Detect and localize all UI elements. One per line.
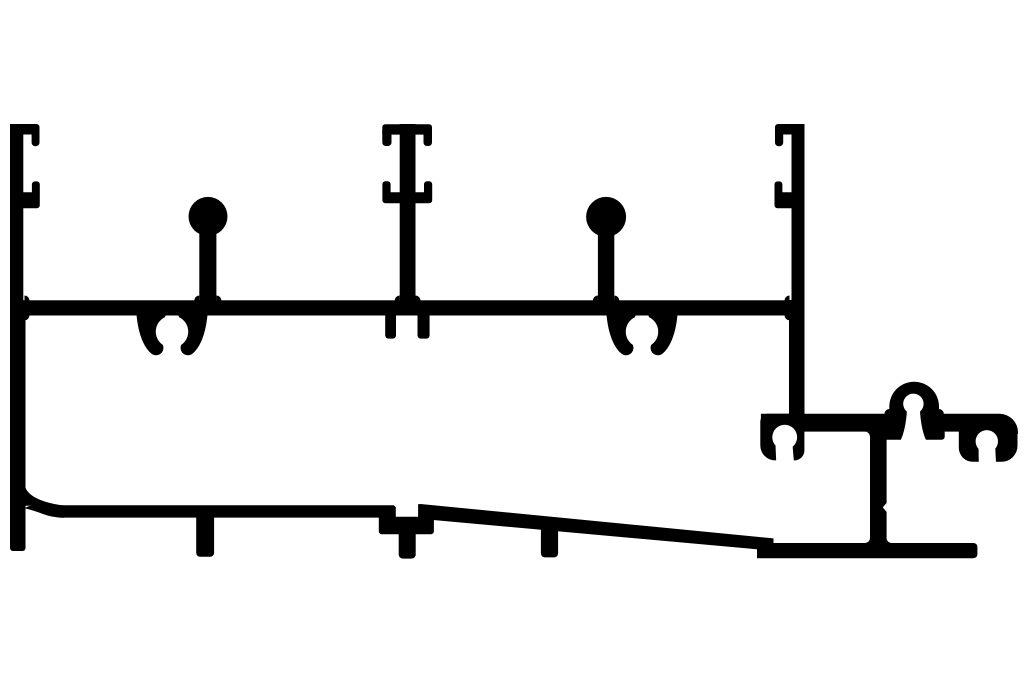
tab 3 (541, 524, 558, 557)
gasket clip 2 right jaw (648, 315, 678, 356)
junction block under notch (379, 517, 434, 534)
fillet wall-bar bottom (25, 315, 30, 320)
right C-hook body (959, 429, 1018, 462)
knob 2 stem (598, 228, 614, 303)
right top cap (775, 124, 805, 135)
right section arm (761, 414, 1018, 434)
middle post stem (400, 124, 416, 304)
middle hook right finger (424, 181, 432, 192)
fillet central-bar arm left (865, 432, 870, 437)
left cap finger (32, 130, 40, 146)
right cap finger (775, 130, 783, 146)
bottom bar left fillet (25, 485, 63, 506)
left wall lower (10, 300, 26, 551)
omega inner bore (903, 394, 923, 414)
left C-hook inner bore (772, 425, 797, 450)
omega ring (889, 382, 939, 415)
right C-hook mouth slot (979, 447, 997, 463)
left C-hook mouth slot (776, 445, 794, 462)
omega keyhole slot (901, 404, 927, 440)
sloped bar (418, 504, 773, 550)
middle cap (382, 124, 432, 134)
fillet mid-stem left (395, 296, 400, 301)
right hook block (775, 192, 792, 208)
left hook block (23, 192, 40, 208)
gasket clip 1 left jaw (137, 315, 167, 356)
fillet wall-bar top (25, 296, 30, 301)
main horizontal bar (10, 300, 805, 315)
fillet central-bar bottom left (865, 538, 870, 543)
middle stub left below bar (385, 315, 396, 339)
fillet mid-stem right (416, 296, 421, 301)
fillet right-post top (785, 296, 790, 301)
right post wall lower (789, 300, 805, 424)
right C-hook inner bore (976, 430, 998, 452)
screw notch on central bar (883, 503, 887, 512)
fillet stem2 left (593, 296, 598, 301)
middle cap right finger (424, 130, 433, 146)
left wall upper (10, 124, 23, 310)
knob 1 circle (189, 197, 228, 236)
tab 1 (196, 514, 214, 557)
middle cap left finger (382, 130, 391, 146)
right hook finger (775, 181, 783, 192)
fillet stem1 right (216, 296, 221, 301)
fillet central-bar arm right (887, 432, 892, 437)
bottom flat bar (60, 505, 396, 517)
bottom right bar (757, 543, 977, 558)
right post wall upper (792, 124, 805, 310)
tab 2 (399, 530, 416, 559)
omega flange block (883, 414, 945, 440)
omega right side fillet (939, 409, 944, 414)
central vertical bar (right section) (870, 420, 887, 550)
gasket clip 1 right jaw (178, 315, 208, 356)
gasket clip 2 left jaw (607, 315, 637, 356)
left top cap (10, 124, 40, 135)
fillet right-post bottom (785, 315, 790, 320)
bottom bar underside web (25, 505, 65, 517)
knob 1 stem (199, 228, 216, 303)
fillet central-bar bottom right (887, 538, 892, 543)
left hook finger (32, 181, 40, 192)
middle hook left finger (382, 181, 390, 192)
fillet stem1 left (194, 296, 199, 301)
middle stub right below bar (417, 315, 429, 339)
omega left side fillet (884, 409, 889, 414)
left C-hook of right section: body (760, 414, 804, 461)
knob 2 circle (586, 197, 626, 237)
middle hook crossbar (382, 192, 432, 203)
fillet stem2 right (614, 296, 619, 301)
